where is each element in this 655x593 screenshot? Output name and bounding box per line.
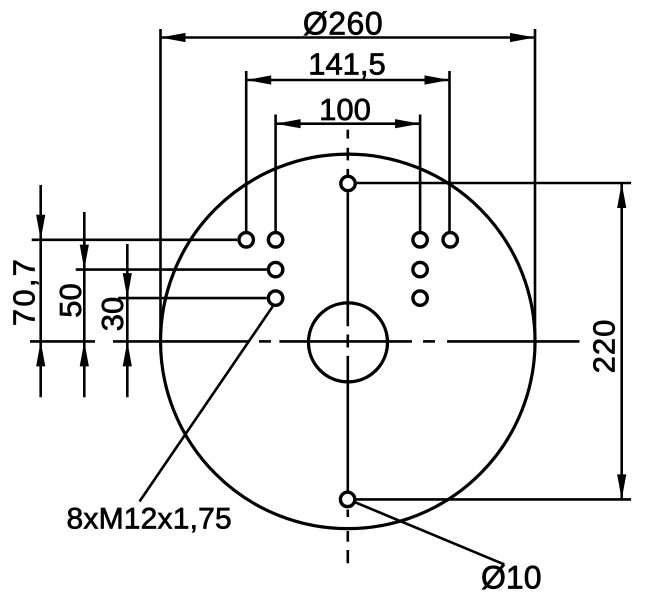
dimension 70,7 line: [39, 185, 42, 397]
dimension 141,5 left arrow: [246, 75, 271, 84]
dimension 220 bottom extension line: [356, 498, 631, 501]
dimension 220 bottom arrow: [617, 474, 626, 499]
horizontal centerline: [30, 340, 580, 343]
bolt hole M12 right outer: [443, 233, 457, 247]
bolt hole M12 left outer: [239, 233, 253, 247]
dimension 220 top arrow: [617, 183, 626, 208]
dimension 100 left arrow: [276, 119, 301, 128]
svg-text:50: 50: [53, 283, 88, 317]
bolt hole M12 left inner row2: [268, 262, 282, 276]
dimension 70,7 down arrow: [36, 215, 45, 240]
dimension 141,5 right extension line: [448, 71, 451, 231]
leader line 8xM12: [140, 305, 274, 502]
central bore hole: [309, 303, 388, 382]
dimension Ø260 line: [161, 36, 536, 39]
vertical centerline: [346, 130, 349, 564]
svg-text:70,7: 70,7: [7, 257, 42, 326]
svg-text:141,5: 141,5: [308, 47, 386, 82]
flange outer circle: [161, 154, 536, 529]
dimension 141,5 right arrow: [425, 75, 450, 84]
dimension 50 line: [83, 212, 86, 397]
dimension Ø260 left extension line: [159, 29, 162, 341]
hole Ø10 top: [341, 176, 355, 190]
dimension 100 right arrow: [395, 119, 420, 128]
bolt hole M12 left inner row1: [268, 233, 282, 247]
dimension Ø260 left arrow: [161, 33, 186, 42]
dimension 100 right extension line: [419, 115, 422, 232]
svg-text:Ø10: Ø10: [481, 560, 541, 593]
dimension 100 left extension line: [274, 115, 277, 232]
dimension 220 line: [620, 183, 623, 499]
dimension 141,5 left extension line: [245, 71, 248, 231]
bolt hole M12 right inner row2: [413, 262, 427, 276]
dimension 30 up arrow: [123, 341, 132, 366]
dimension 30 down arrow: [123, 273, 132, 298]
svg-text:220: 220: [587, 319, 622, 374]
dimension 50 up arrow: [80, 341, 89, 366]
dimension 30 extension line: [118, 297, 267, 300]
svg-text:100: 100: [319, 92, 371, 127]
svg-text:8xM12x1,75: 8xM12x1,75: [67, 503, 232, 536]
svg-text:Ø260: Ø260: [303, 6, 383, 42]
svg-text:30: 30: [95, 297, 130, 331]
dimension 50 extension line: [76, 268, 267, 271]
bolt hole M12 right inner row3: [413, 291, 427, 305]
dimension 50 down arrow: [80, 245, 89, 270]
dimension 70,7 up arrow: [36, 341, 45, 366]
hole Ø10 bottom: [340, 492, 354, 506]
bolt hole M12 right inner row1: [413, 233, 427, 247]
dimension 141,5 line: [246, 79, 449, 82]
bolt hole M12 left inner row3: [268, 291, 282, 305]
dimension 70,7 extension line: [32, 239, 238, 242]
dimension 100 line: [276, 122, 421, 125]
dimension 30 line: [126, 244, 129, 397]
leader line Ø10: [354, 502, 504, 565]
dimension Ø260 right extension line: [534, 29, 537, 341]
dimension Ø260 right arrow: [510, 33, 535, 42]
dimension 220 top extension line: [357, 182, 631, 185]
